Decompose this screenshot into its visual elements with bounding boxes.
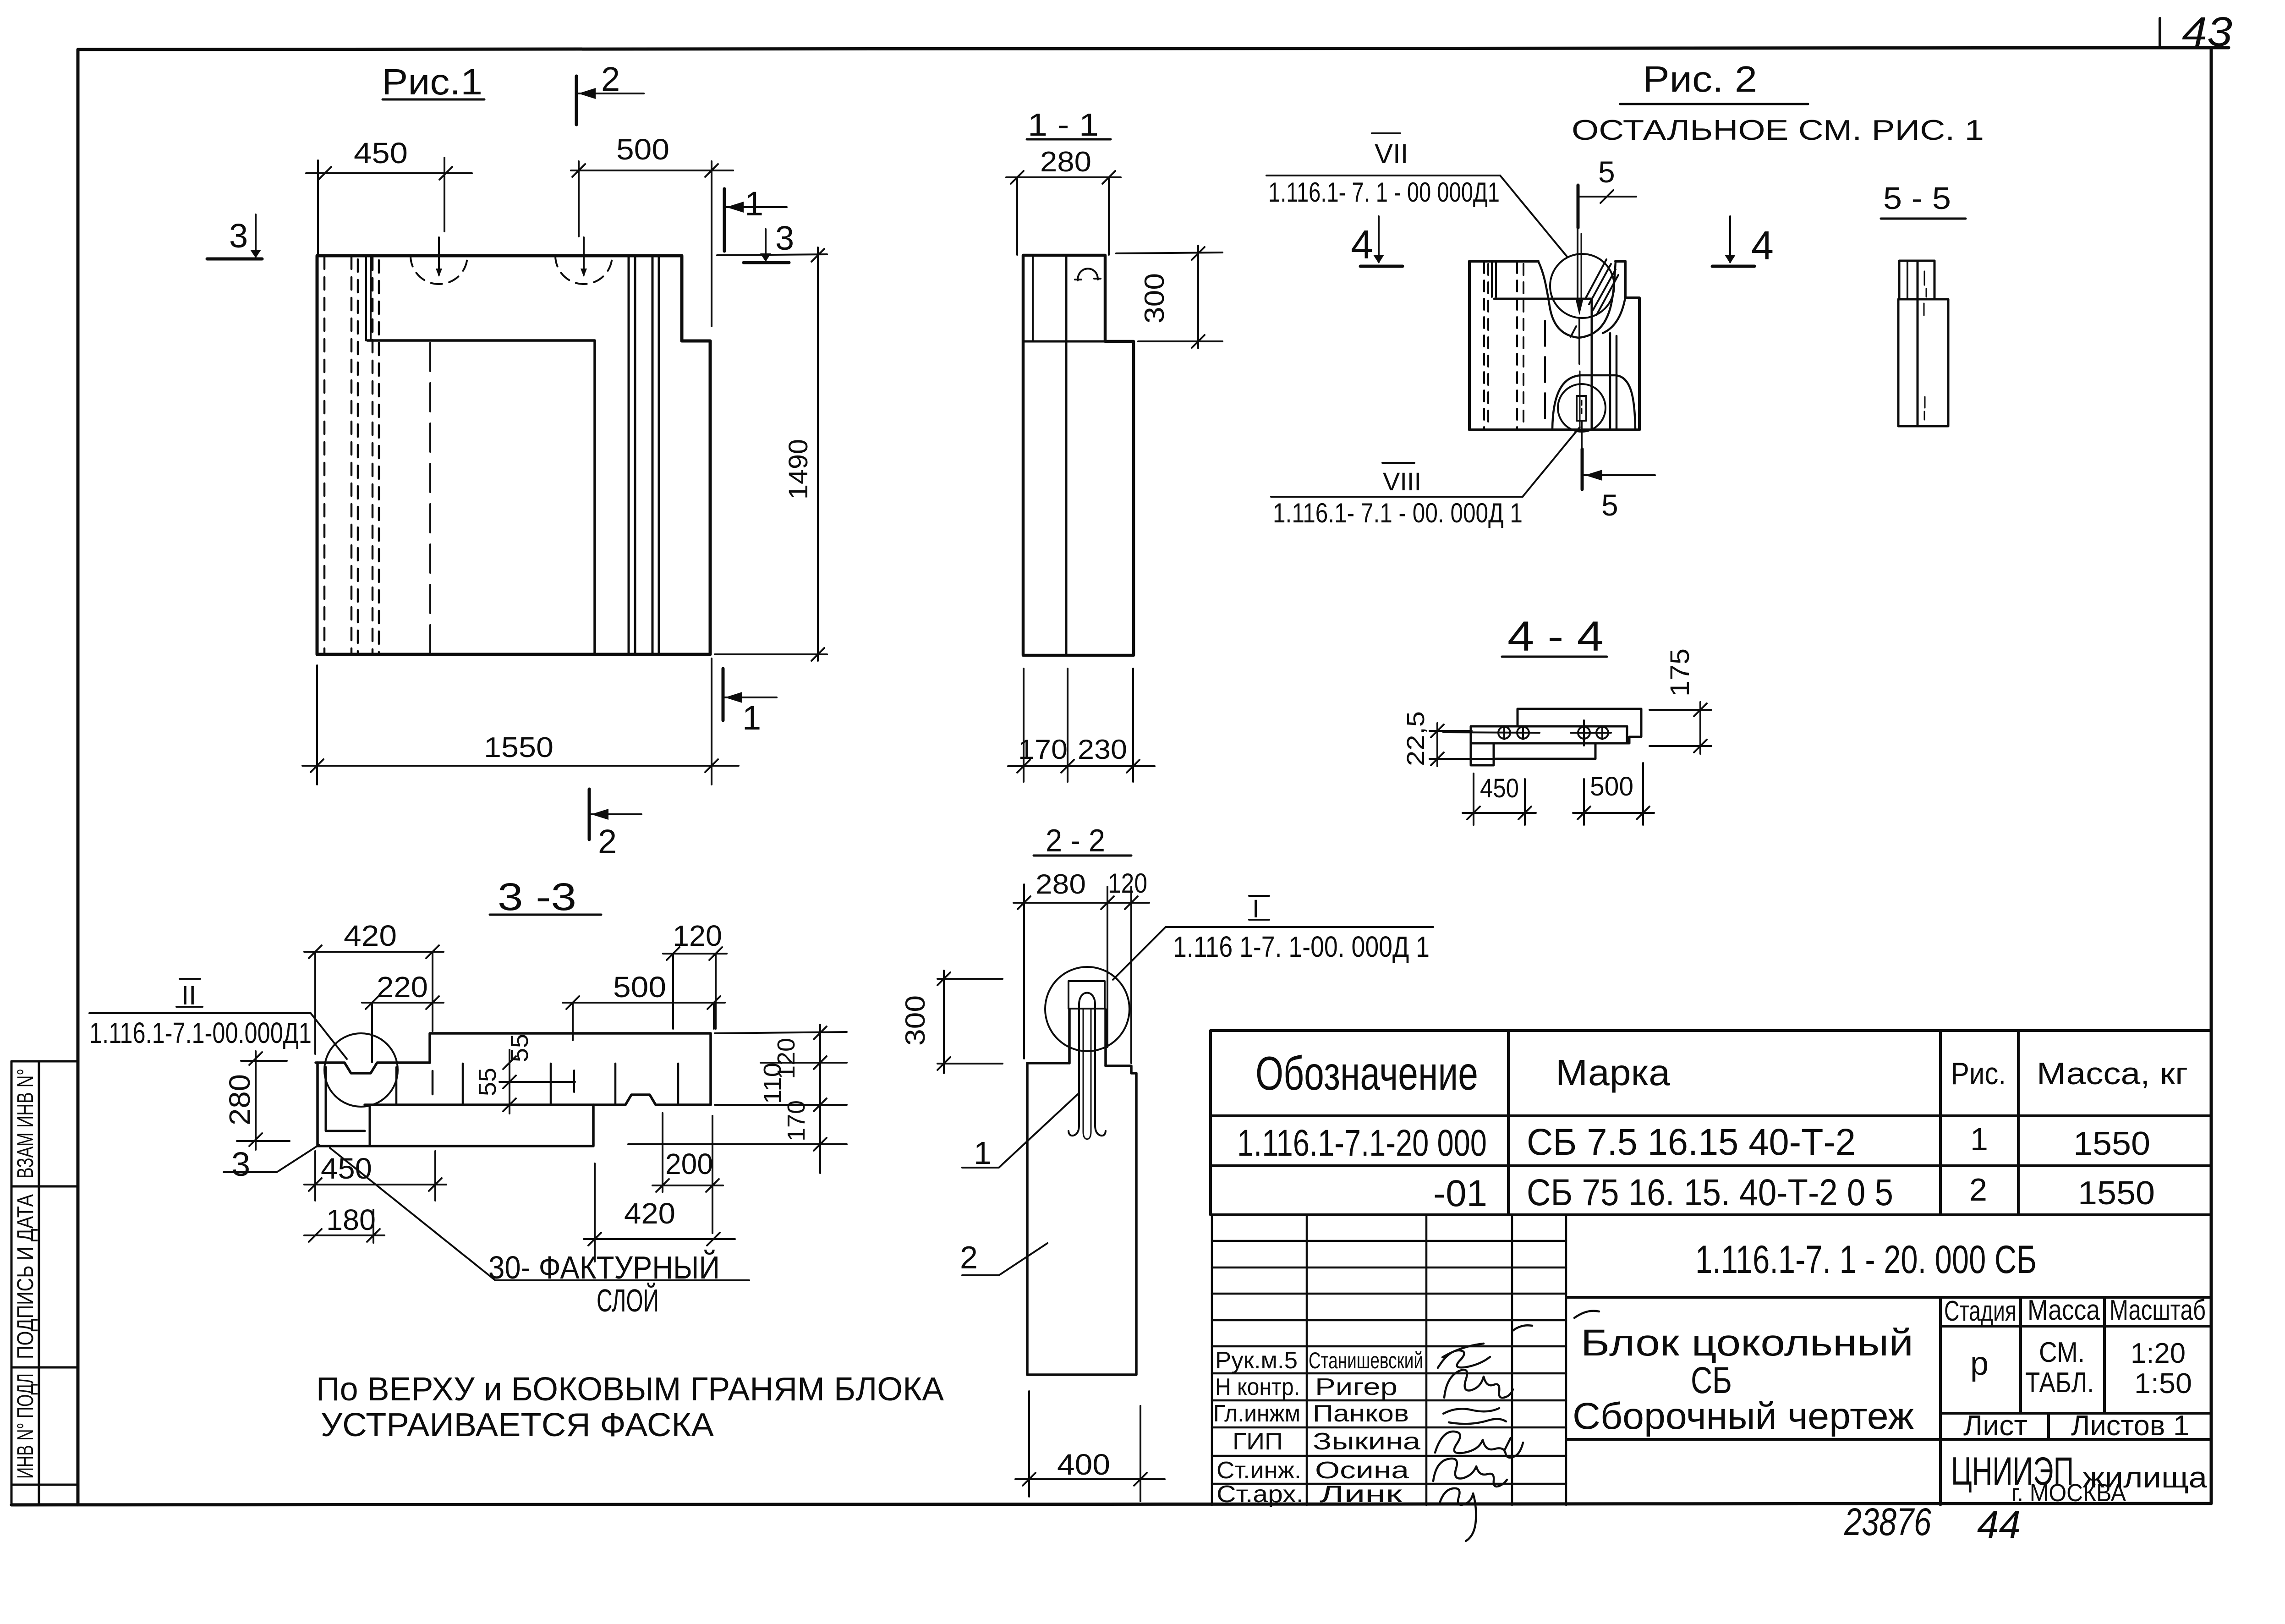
3-3 dim 220	[362, 996, 444, 1062]
svg-text:420: 420	[344, 919, 397, 952]
svg-text:3 -3: 3 -3	[498, 875, 576, 918]
3-3 top bar outline	[430, 1033, 711, 1105]
Fig1 section marker 1 top	[723, 189, 726, 251]
5-5 upper narrow part	[1899, 261, 1934, 299]
svg-text:1550: 1550	[2073, 1125, 2150, 1162]
Fig2 marker 4 right	[1712, 265, 1754, 268]
svg-text:Гл.инжм: Гл.инжм	[1213, 1400, 1300, 1427]
svg-text:2: 2	[1969, 1172, 1987, 1207]
Fig1 section marker 2 top	[575, 76, 578, 125]
4-4 bolts	[1498, 720, 1608, 746]
2-2 loop wires	[1079, 993, 1095, 1005]
4-4 dim 500	[1573, 763, 1654, 825]
Fig1 dim 450	[306, 158, 472, 254]
svg-text:3: 3	[231, 1145, 250, 1183]
1-1 shoulder line	[1023, 340, 1105, 343]
svg-text:Панков: Панков	[1313, 1400, 1409, 1427]
Fig1 recess edge	[367, 340, 595, 654]
svg-text:Линк: Линк	[1320, 1481, 1402, 1508]
svg-text:1.116.1-7.1-20 000: 1.116.1-7.1-20 000	[1237, 1122, 1487, 1164]
svg-text:Обозначение: Обозначение	[1255, 1047, 1478, 1100]
Fig2 recess edge	[1494, 299, 1592, 430]
svg-text:110: 110	[759, 1063, 786, 1104]
svg-text:23876: 23876	[1844, 1500, 1931, 1543]
svg-text:500: 500	[613, 971, 666, 1004]
svg-text:1:20: 1:20	[2131, 1338, 2186, 1369]
Fig2 detail circle VII	[1550, 254, 1614, 318]
5-5 title underline	[1881, 218, 1966, 220]
3-3 detail circle II	[324, 1033, 398, 1107]
4-4 bottom bar	[1494, 743, 1595, 759]
4-4 top plate	[1518, 709, 1641, 743]
svg-text:44: 44	[1977, 1503, 2021, 1546]
3-3 dim 200	[652, 1113, 723, 1233]
Fig2 marker 5 bottom	[1581, 449, 1584, 489]
2-2 detail label I leader	[1249, 895, 1269, 897]
1-1 dim 300 right	[1116, 246, 1222, 348]
svg-text:500: 500	[616, 133, 669, 166]
svg-text:ГИП: ГИП	[1233, 1428, 1283, 1455]
1-1 facing layer line	[1032, 256, 1034, 341]
svg-text:300: 300	[1139, 273, 1170, 324]
Fig2 pocket notch curve	[1538, 261, 1616, 338]
svg-text:280: 280	[1036, 869, 1086, 900]
Fig2 axis long-dash	[1544, 321, 1546, 427]
Fig1 recess left double line	[365, 256, 367, 340]
Fig2 hook hatches	[1585, 259, 1618, 315]
svg-text:4: 4	[1751, 223, 1774, 268]
3-3 band bottom edge with right notch	[365, 1095, 711, 1105]
svg-text:120: 120	[673, 919, 722, 952]
2-2 dim 400 bottom	[1015, 1391, 1165, 1501]
svg-text:1 - 1: 1 - 1	[1028, 107, 1099, 143]
3-3 band dividers	[396, 1064, 678, 1104]
svg-text:280: 280	[223, 1074, 256, 1125]
svg-text:УСТРАИВАЕТСЯ ФАСКА: УСТРАИВАЕТСЯ ФАСКА	[321, 1407, 714, 1443]
3-3 dim 450 bottom	[304, 1151, 446, 1201]
Fig1 loop ticks	[438, 237, 440, 275]
3-3 loop axis H-bar	[499, 1081, 575, 1083]
Fig2 marker 5 top	[1577, 185, 1580, 228]
svg-text:180: 180	[326, 1203, 376, 1236]
svg-text:400: 400	[1057, 1448, 1110, 1481]
svg-text:1: 1	[745, 185, 763, 223]
svg-text:170: 170	[1018, 734, 1068, 765]
Fig2 recess double line	[1491, 261, 1493, 297]
svg-text:1.116.1- 7. 1 - 00 000Д1: 1.116.1- 7. 1 - 00 000Д1	[1268, 177, 1500, 208]
2-2 detail circle I	[1045, 967, 1129, 1051]
svg-text:500: 500	[1590, 772, 1633, 801]
3-3 title underline	[490, 914, 601, 916]
svg-text:30- ФАКТУРНЫЙ: 30- ФАКТУРНЫЙ	[488, 1249, 720, 1285]
svg-text:2: 2	[598, 823, 617, 861]
svg-text:1490: 1490	[784, 439, 813, 499]
svg-text:Масса: Масса	[2027, 1295, 2100, 1326]
svg-text:1: 1	[1970, 1121, 1988, 1157]
4-4 dim 175	[1649, 702, 1711, 754]
Fig2 loop rod top	[1577, 227, 1578, 302]
svg-text:450: 450	[354, 137, 408, 170]
svg-text:Рис.: Рис.	[1951, 1056, 2006, 1091]
Fig1 lifting loop dashed arcs	[411, 256, 467, 284]
4-4 dim 450	[1463, 774, 1536, 825]
svg-text:ИНВ N° ПОДЛ: ИНВ N° ПОДЛ	[12, 1373, 38, 1479]
svg-text:230: 230	[1078, 734, 1127, 765]
1-1 dims 170/230	[1008, 669, 1155, 782]
Fig2 pocket under-step curve	[1603, 298, 1625, 333]
Fig2 detail circle VIII	[1558, 384, 1606, 432]
Fig1 dim 1490 right	[715, 247, 827, 661]
signature squiggles in title block	[1433, 1311, 1599, 1541]
svg-text:Масса, кг: Масса, кг	[2037, 1056, 2188, 1091]
svg-text:II: II	[181, 981, 196, 1010]
svg-text:VII: VII	[1375, 138, 1408, 169]
svg-text:2 - 2: 2 - 2	[1046, 823, 1105, 858]
title block: signature table grid	[1212, 1215, 1566, 1505]
2-2 dim 300 left	[937, 971, 1003, 1073]
svg-text:450: 450	[1480, 774, 1519, 803]
svg-text:43: 43	[2182, 9, 2232, 55]
svg-text:170: 170	[783, 1100, 810, 1141]
svg-text:ПОДПИСЬ И ДАТА: ПОДПИСЬ И ДАТА	[12, 1194, 38, 1359]
svg-text:280: 280	[1040, 146, 1091, 178]
Fig1 dim 500	[571, 161, 733, 326]
2-2 dims 280/120 top	[1014, 884, 1149, 1063]
svg-text:СМ.: СМ.	[2039, 1337, 2085, 1368]
Fig1 section marker 3 left	[207, 258, 262, 261]
svg-text:120: 120	[1108, 868, 1147, 899]
svg-text:СБ 75 16. 15. 40-Т-2 0 5: СБ 75 16. 15. 40-Т-2 0 5	[1527, 1172, 1893, 1213]
5-5 lower wide part	[1898, 299, 1948, 426]
Fig2 block outline with pocket	[1469, 261, 1639, 430]
3-3 label II	[180, 978, 200, 980]
svg-text:Рис.1: Рис.1	[382, 61, 482, 102]
1-1 dim 280	[1006, 171, 1121, 255]
3-3 right dim stack 120/110/170	[628, 1025, 847, 1173]
2-2 neck	[1069, 1010, 1106, 1066]
2-2 body outline	[1027, 1063, 1136, 1375]
3-3 leader facing layer	[330, 1148, 749, 1280]
Fig1 section marker 1 bottom	[722, 669, 725, 720]
svg-text:450: 450	[321, 1152, 372, 1185]
3-3 leader 3	[224, 1145, 319, 1172]
svg-text:2: 2	[601, 60, 620, 98]
svg-text:СЛОЙ: СЛОЙ	[597, 1282, 659, 1318]
4-4 left foot	[1471, 726, 1494, 765]
title block: right big cells	[1566, 1297, 2211, 1505]
Fig1 title underline	[383, 99, 484, 101]
4-4 title underline	[1502, 656, 1607, 658]
svg-text:5: 5	[1598, 155, 1615, 189]
svg-text:Ригер: Ригер	[1315, 1374, 1397, 1400]
4-4 middle band	[1471, 726, 1627, 743]
svg-text:ТАБЛ.: ТАБЛ.	[2025, 1367, 2094, 1399]
svg-text:-01: -01	[1433, 1173, 1487, 1214]
svg-text:Лист: Лист	[1963, 1410, 2027, 1442]
Fig2 anchor rect	[1577, 396, 1586, 421]
2-2 leader 2	[962, 1243, 1047, 1275]
2-2 title underline	[1034, 855, 1131, 857]
3-3 dim 120 top right	[663, 947, 727, 1029]
svg-text:I: I	[1252, 894, 1260, 923]
3-3 facing layer top edge	[369, 1106, 371, 1145]
Fig2 marker 4 left	[1360, 265, 1403, 268]
1-1 body outline	[1023, 255, 1134, 655]
Fig1 hidden dashed lines	[324, 257, 379, 653]
svg-text:1550: 1550	[484, 732, 553, 763]
1-1 loop section	[1078, 269, 1098, 280]
svg-text:По ВЕРХУ и БОКОВЫМ ГРАНЯМ: По ВЕРХУ и БОКОВЫМ ГРАНЯМ БЛОКА	[316, 1371, 944, 1408]
svg-text:300: 300	[900, 995, 931, 1046]
5-5 centre line	[1917, 261, 1919, 426]
svg-text:р: р	[1970, 1345, 1989, 1382]
Fig1 section marker 3 right	[744, 261, 789, 264]
3-3 dim 420 bottom	[584, 1163, 735, 1262]
4-4 dim 22,5	[1430, 723, 1493, 766]
Fig2 label VIII	[1382, 462, 1414, 464]
svg-text:4 - 4: 4 - 4	[1507, 613, 1604, 660]
Fig1 axis long-dash line	[429, 343, 431, 653]
Fig2 loop rod bottom	[1581, 422, 1583, 450]
Fig1 section marker 2 bottom	[588, 789, 591, 839]
Fig2 hidden dashed lines	[1484, 262, 1523, 429]
svg-text:1550: 1550	[2078, 1175, 2155, 1212]
left strip boxes (outside frame)	[11, 1061, 77, 1505]
svg-text:Ст.инж.: Ст.инж.	[1216, 1457, 1301, 1484]
svg-text:Рук.м.5: Рук.м.5	[1215, 1347, 1298, 1374]
svg-text:Н контр.: Н контр.	[1215, 1374, 1300, 1400]
Fig2 label VII	[1372, 132, 1400, 134]
2-2 leader 1	[962, 1094, 1078, 1168]
svg-text:СБ 7.5 16.15 40-Т-2: СБ 7.5 16.15 40-Т-2	[1527, 1121, 1856, 1163]
Fig1 grooves right	[629, 256, 659, 654]
svg-text:220: 220	[377, 971, 428, 1004]
3-3 dims 55	[503, 1050, 516, 1114]
svg-text:5 - 5: 5 - 5	[1883, 181, 1951, 216]
svg-text:Осина: Осина	[1315, 1457, 1409, 1484]
svg-text:Блок цокольный: Блок цокольный	[1581, 1322, 1913, 1364]
3-3 dim 500	[563, 996, 725, 1040]
svg-text:1: 1	[742, 699, 761, 737]
svg-text:200: 200	[665, 1147, 713, 1180]
svg-text:55: 55	[474, 1068, 501, 1096]
svg-text:1: 1	[974, 1135, 992, 1171]
svg-text:Стадия: Стадия	[1944, 1295, 2016, 1327]
svg-text:Зыкина: Зыкина	[1313, 1428, 1420, 1455]
Fig2 bottom pocket curve	[1552, 375, 1635, 429]
svg-text:175: 175	[1665, 648, 1695, 697]
5-5 small marks	[1924, 271, 1926, 420]
1-1 title underline	[1027, 138, 1111, 141]
svg-text:22,5: 22,5	[1402, 711, 1430, 766]
svg-text:2: 2	[960, 1240, 978, 1275]
svg-text:Сборочный чертеж: Сборочный чертеж	[1573, 1395, 1914, 1437]
Fig1 dim 1550 bottom	[302, 658, 739, 785]
3-3 left end outline	[318, 1063, 593, 1146]
svg-text:1.116.1-7.1-00.000Д1: 1.116.1-7.1-00.000Д1	[89, 1016, 312, 1049]
svg-text:Масштаб: Масштаб	[2110, 1295, 2206, 1326]
page number tick top right	[2159, 18, 2161, 47]
svg-text:4: 4	[1351, 222, 1373, 267]
svg-text:3: 3	[229, 217, 248, 255]
svg-text:г. МОСКВА: г. МОСКВА	[2011, 1479, 2126, 1507]
Fig2 title underline	[1620, 103, 1808, 105]
4-4 bolt axis lines	[1443, 732, 1540, 733]
Fig1 block outline	[317, 256, 710, 654]
svg-text:ВЗАМ ИНВ N°: ВЗАМ ИНВ N°	[12, 1069, 38, 1179]
3-3 dim 280 left	[237, 1051, 290, 1150]
svg-text:VIII: VIII	[1383, 467, 1421, 496]
3-3 dim 180	[304, 1210, 384, 1243]
svg-text:Ст.арх.: Ст.арх.	[1216, 1481, 1304, 1508]
svg-text:1.116.1- 7.1 - 00. 000Д 1: 1.116.1- 7.1 - 00. 000Д 1	[1273, 498, 1523, 528]
svg-text:420: 420	[624, 1197, 675, 1230]
svg-text:5: 5	[1601, 488, 1618, 522]
svg-text:1.116.1-7. 1 - 20. 000 СБ: 1.116.1-7. 1 - 20. 000 СБ	[1695, 1238, 2037, 1282]
svg-text:ОСТАЛЬНОЕ СМ. РИС. 1: ОСТАЛЬНОЕ СМ. РИС. 1	[1572, 115, 1984, 146]
5-5 facing line	[1907, 261, 1908, 299]
svg-text:3: 3	[775, 219, 794, 257]
3-3 dim 420 top	[304, 945, 444, 1054]
svg-text:Листов 1: Листов 1	[2071, 1410, 2189, 1442]
svg-text:Рис. 2: Рис. 2	[1643, 59, 1757, 99]
3-3 left inner L	[326, 1067, 365, 1131]
svg-text:Станишевский: Станишевский	[1309, 1348, 1423, 1373]
3-3 band top edge with notch	[316, 1063, 430, 1073]
svg-text:55: 55	[506, 1034, 533, 1062]
1-1 centre line	[1065, 255, 1068, 655]
svg-text:1:50: 1:50	[2134, 1368, 2192, 1399]
svg-text:1.116 1-7. 1-00. 000Д 1: 1.116 1-7. 1-00. 000Д 1	[1173, 930, 1430, 963]
svg-text:Марка: Марка	[1556, 1052, 1671, 1093]
2-2 anchor plate	[1069, 981, 1105, 1009]
Fig2 grooves	[1609, 333, 1611, 430]
title block: upper table (Обозначение/Марка/Рис/Масса)	[1211, 1031, 2211, 1215]
